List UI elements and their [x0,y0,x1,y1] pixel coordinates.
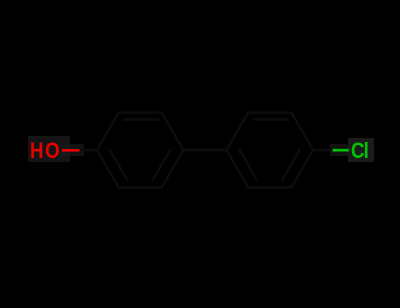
benzene ring 2 (right) skeleton [227,113,313,188]
jpeg artifact block behind HO [28,136,70,162]
ring 2 inner double bonds [240,120,300,180]
jpeg artifact block behind red bond [60,144,84,156]
benzene ring 1 (left) skeleton [97,113,183,188]
bond ring to Cl (black half) [313,149,333,152]
jpeg artifact block behind Cl [348,138,374,162]
biphenyl inter-ring bond [183,149,226,151]
bond O to ring (red half) [62,149,80,152]
svg-text:HO: HO [30,140,61,164]
bond O to ring (black half) [80,149,98,152]
svg-text:Cl: Cl [351,140,368,164]
jpeg artifact block behind green bond [330,144,352,156]
bond ring to Cl (green half) [333,149,349,152]
ring 1 inner double bonds [110,120,170,180]
